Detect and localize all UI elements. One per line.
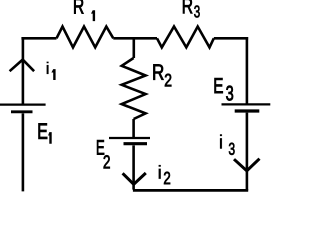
wire left vertical lower [22, 113, 25, 191]
resistor R3 [157, 27, 214, 48]
label R2 [153, 64, 171, 86]
wire middle vertical below E2 [132, 145, 135, 189]
battery E3 short plate [235, 109, 260, 112]
current arrow i3 [234, 159, 260, 171]
wire bottom horizontal [133, 189, 248, 192]
label E2 [97, 140, 110, 168]
battery E1 short plate [11, 110, 33, 113]
wire top-right horizontal [214, 37, 248, 40]
wire right vertical lower [246, 113, 249, 191]
label i2 [159, 165, 170, 184]
label i3 [220, 134, 235, 154]
wire right vertical upper [246, 37, 249, 104]
current arrow i2 [123, 173, 146, 184]
resistor R2 [122, 58, 146, 119]
wire R2 branch from node [133, 38, 136, 58]
label i1 [47, 62, 56, 80]
label R1 [74, 0, 95, 21]
resistor R1 [57, 27, 114, 48]
battery E2 long plate [109, 137, 150, 139]
wire left vertical upper [22, 37, 25, 104]
wire top-left horizontal [21, 37, 56, 40]
label E3 [215, 78, 234, 100]
battery E1 long plate [0, 103, 46, 105]
battery E2 short plate [124, 142, 148, 145]
battery E3 long plate [222, 103, 271, 105]
current arrow i1 [10, 60, 34, 72]
wire top-middle horizontal [113, 37, 157, 40]
label E1 [38, 123, 51, 143]
wire middle vertical to E2 [132, 119, 135, 138]
label R3 [183, 0, 200, 17]
